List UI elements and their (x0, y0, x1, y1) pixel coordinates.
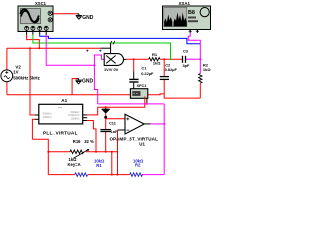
PLL pin 1 right (83, 114, 88, 116)
capacitor C1 (129, 71, 138, 88)
capacitor C1 stub (red) (133, 59, 135, 71)
junction dot C1 tap (133, 58, 135, 60)
multiplier top pin wire (black) (101, 43, 111, 54)
potentiometer R16 (70, 149, 90, 158)
junction dot C2 tap (163, 58, 165, 60)
junction dot arrow node (105, 106, 107, 108)
svg-text:R2: R2 (135, 163, 141, 168)
multiplier A3 (104, 54, 123, 66)
resistor R2 (1k) (199, 74, 202, 84)
svg-text:1V/V 0V: 1V/V 0V (104, 67, 119, 72)
junction dot C11 lead join (105, 151, 107, 153)
resistor R2 stub (magenta) (199, 59, 201, 73)
wire magenta output bus horizontal (98, 103, 165, 105)
frequency counter XFC1 (130, 89, 147, 99)
svg-text:GND: GND (82, 15, 94, 21)
svg-text:500kHz: 500kHz (43, 112, 53, 116)
junction dot rail mid (111, 174, 113, 176)
ground top (76, 14, 82, 19)
spectrum analyzer terminal IN (189, 30, 192, 33)
svg-text:XFC1: XFC1 (137, 83, 148, 88)
svg-text:1kΩ: 1kΩ (203, 67, 211, 72)
junction dot top node V2 (29, 47, 31, 49)
svg-text:1V: 1V (13, 70, 18, 75)
svg-text:100kHz: 100kHz (70, 117, 80, 121)
wire scope B green (33, 35, 171, 60)
junction dot rail minus (117, 174, 119, 176)
wire R2 bottom (red) (199, 83, 201, 98)
svg-text:0.22µF: 0.22µF (141, 71, 154, 76)
wire to ground mid (red) (72, 79, 77, 95)
junction dot op-amp out (163, 123, 165, 125)
spectrum analyzer terminal T (196, 30, 199, 33)
wire hop marks on green line (110, 41, 115, 44)
PLL pin 3 right (83, 120, 88, 122)
svg-text:XSC1: XSC1 (35, 1, 47, 6)
wire C2 bottom (red) (164, 80, 200, 98)
wire bottom rail mid (red) (88, 174, 130, 176)
junction dot plus input (104, 116, 107, 119)
svg-text:100kHz: 100kHz (43, 115, 53, 119)
ground arrow on plus node (102, 107, 110, 113)
wire scope A down jog (red) (27, 35, 40, 49)
svg-text:OPAMP_3T_VIRTUAL: OPAMP_3T_VIRTUAL (110, 137, 159, 142)
PLL block A1 (39, 104, 83, 124)
svg-text:GND: GND (82, 79, 94, 85)
wire pot right lead (red) (86, 151, 118, 153)
oscilloscope right connector 2 (48, 18, 52, 22)
wire R1 to C3 node (red) (160, 58, 182, 60)
svg-text:C1: C1 (141, 65, 147, 70)
oscilloscope terminal A (25, 26, 29, 35)
oscilloscope terminal D (44, 26, 48, 35)
wire op-amp minus to rail (red) (117, 130, 119, 175)
svg-text:3pF: 3pF (183, 63, 191, 68)
capacitor C11 (100, 130, 111, 132)
wire C3 right to R2 node (magenta) (186, 58, 200, 60)
V2 source (1, 70, 13, 82)
PLL pin 1 left (35, 114, 39, 116)
wire op-amp output magenta (151, 123, 165, 125)
wire plus node vertical (red) (105, 114, 107, 129)
wire magenta right vertical (163, 104, 165, 175)
frequency counter terminal stub (146, 98, 148, 104)
multiplier output stub (123, 58, 126, 60)
op-amp output stub (144, 123, 150, 125)
svg-text:R1: R1 (152, 52, 158, 57)
wire V2 net vertical to PLL pin1 (red) (30, 48, 35, 115)
svg-text:500kHz 5kHz: 500kHz 5kHz (13, 75, 40, 80)
wire multiplier Y input magenta (94, 55, 104, 104)
svg-text:A1: A1 (61, 98, 67, 103)
svg-text:32 %: 32 % (84, 139, 94, 144)
resistor R2 10k (blue body) (130, 173, 143, 177)
junction dot pin3 lead join (95, 151, 97, 153)
PLL pin 2 right (83, 117, 88, 119)
wire PLL out to R2 bottom node (red) (87, 97, 145, 115)
wire lower run (red) (32, 139, 48, 174)
wire mid drop to rail (red) (111, 152, 113, 175)
wire to op-amp plus input (red) (106, 118, 125, 120)
wire magenta rail segment (142, 174, 164, 176)
oscilloscope XSC1 body (18, 6, 53, 32)
svg-text:Key=A: Key=A (68, 162, 81, 167)
junction dot green tap (170, 58, 172, 60)
junction dot counter tap (146, 103, 148, 105)
svg-text:0.82µF: 0.82µF (165, 67, 178, 72)
capacitor C3 (183, 56, 186, 63)
wire V2 bottom rail (red) (6, 82, 8, 95)
svg-text:C11: C11 (109, 121, 117, 126)
resistor R1 10k (blue body) (75, 173, 88, 177)
junction dot T1 join (38, 47, 40, 49)
wire PLL pin2 left drop (red) (32, 119, 34, 139)
svg-text:C3: C3 (183, 48, 189, 53)
svg-text:1kΩ: 1kΩ (153, 60, 161, 65)
wire scope ext to ground (red) (54, 13, 77, 15)
svg-text:U1: U1 (139, 141, 145, 146)
svg-text:B8: B8 (188, 10, 195, 16)
spectrum analyzer XSA1 body (163, 6, 211, 30)
svg-text:R16: R16 (73, 139, 81, 144)
wire top node line (red) (7, 47, 101, 49)
wire scope D magenta (46, 35, 94, 66)
oscilloscope terminal C (38, 26, 42, 35)
wire pot left lead (red) (48, 151, 70, 153)
svg-text:PLL_VIRTUAL: PLL_VIRTUAL (43, 130, 78, 136)
resistor R1 (1k) (149, 58, 160, 61)
wire ground line horizontal (red) (7, 93, 164, 96)
op-amp U1 (125, 114, 144, 134)
PLL pin 2 left (35, 118, 39, 120)
op-amp minus input stub (118, 129, 126, 131)
junction dot scope D join (93, 64, 95, 66)
junction dot R2 top (199, 58, 201, 60)
oscilloscope right connector 1 (48, 11, 52, 15)
capacitor C2 stub (red) (163, 59, 165, 76)
wire spectrum analyzer magenta (188, 33, 200, 59)
wire scope C blue (40, 35, 201, 44)
wire PLL pin3 staircase down (red) (87, 121, 96, 152)
junction dot mid drop lead join (111, 151, 113, 153)
wire bottom rail left (red) (48, 174, 75, 176)
svg-text:500kHz: 500kHz (70, 110, 80, 114)
capacitor C2 (160, 77, 169, 80)
oscilloscope terminal B (31, 26, 35, 35)
junction plus mark (99, 50, 101, 52)
svg-text:100kHz/V: 100kHz/V (68, 113, 80, 117)
ground mid (75, 79, 81, 84)
junction dot pot left drop (47, 151, 49, 153)
wire left rail down (red) (6, 48, 8, 70)
wire C11 bottom (red) (105, 132, 107, 152)
svg-text:R1: R1 (96, 163, 102, 168)
svg-text:XSA1: XSA1 (179, 1, 191, 6)
wire multiplier out to R1 (red) (126, 58, 148, 60)
